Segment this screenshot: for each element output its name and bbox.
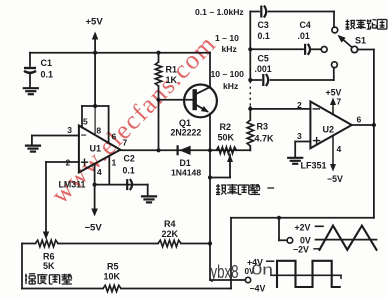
svg-text:ybx8: ybx8 (211, 262, 239, 282)
svg-text:6: 6 (357, 115, 362, 125)
svg-text:5: 5 (83, 116, 88, 126)
svg-text:R6: R6 (43, 252, 55, 262)
svg-text:−: − (81, 130, 87, 141)
svg-text:0.1: 0.1 (258, 31, 270, 41)
svg-text:−5V: −5V (327, 174, 343, 184)
svg-text:C4: C4 (300, 20, 311, 30)
svg-text:10 – 100: 10 – 100 (211, 69, 245, 79)
svg-text:4: 4 (337, 144, 342, 154)
svg-text:0.1: 0.1 (41, 70, 54, 80)
svg-text:R1: R1 (166, 65, 178, 75)
svg-text:.001: .001 (255, 64, 272, 74)
svg-text:kHz: kHz (222, 44, 237, 54)
svg-text:R5: R5 (107, 262, 119, 272)
svg-text:kHz: kHz (223, 81, 238, 91)
svg-text:3: 3 (297, 131, 302, 141)
svg-text:R3: R3 (257, 121, 269, 131)
svg-text:1K: 1K (166, 75, 178, 85)
svg-text:4: 4 (97, 167, 102, 177)
svg-text:7: 7 (123, 137, 128, 147)
svg-text:1: 1 (112, 158, 117, 168)
svg-text:D1: D1 (180, 158, 191, 168)
svg-text:+5V: +5V (86, 17, 104, 28)
svg-text:50K: 50K (218, 133, 235, 143)
svg-text:−5V: −5V (85, 223, 103, 234)
svg-text:−4V: −4V (250, 284, 266, 294)
svg-text:4.7K: 4.7K (255, 134, 275, 144)
svg-text:R4: R4 (164, 219, 176, 229)
svg-text:10K: 10K (104, 272, 121, 282)
svg-text:U1: U1 (90, 144, 102, 154)
svg-text:S1: S1 (355, 36, 366, 46)
svg-text:.01: .01 (298, 31, 310, 41)
svg-text:Q1: Q1 (179, 118, 191, 128)
svg-text:6: 6 (112, 132, 117, 142)
svg-text:C2: C2 (124, 154, 135, 164)
svg-text:+2V: +2V (295, 223, 311, 233)
svg-text:−2V: −2V (293, 244, 309, 254)
svg-text:1N4148: 1N4148 (171, 168, 201, 178)
svg-text:2: 2 (66, 158, 71, 168)
svg-text:3: 3 (67, 125, 72, 135)
svg-text:C5: C5 (258, 54, 269, 64)
svg-text:R2: R2 (220, 122, 232, 132)
svg-text:2N2222: 2N2222 (171, 128, 202, 138)
svg-text:LF351: LF351 (301, 161, 327, 171)
svg-text:0n: 0n (252, 262, 274, 279)
svg-text:0.1 – 1.0kHz: 0.1 – 1.0kHz (195, 7, 244, 17)
svg-text:C3: C3 (258, 20, 269, 30)
svg-text:0.1: 0.1 (123, 166, 135, 176)
svg-text:U2: U2 (323, 125, 335, 135)
svg-text:2: 2 (297, 100, 302, 110)
svg-text:LM311: LM311 (59, 180, 86, 190)
svg-text:7: 7 (337, 97, 342, 107)
svg-text:C1: C1 (41, 58, 53, 68)
svg-text:5K: 5K (43, 261, 55, 271)
svg-text:8: 8 (96, 126, 101, 136)
svg-text:22K: 22K (162, 229, 179, 239)
svg-text:1 – 10: 1 – 10 (215, 33, 239, 43)
